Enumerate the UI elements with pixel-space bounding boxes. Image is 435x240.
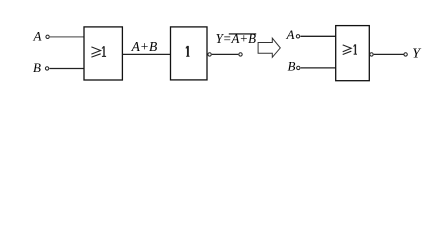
input terminal A <box>46 35 49 38</box>
svg-text:A+B: A+B <box>131 40 158 55</box>
label >=1 of U1 <box>91 47 100 57</box>
implication arrow <box>258 38 280 57</box>
not-gate U2 <box>171 27 208 80</box>
label >=1 of U3 <box>343 45 352 55</box>
input terminal A (right circuit) <box>296 35 299 38</box>
svg-text:B: B <box>288 58 296 73</box>
input terminal B (right circuit) <box>297 66 300 69</box>
inversion bubble U3 <box>370 53 373 56</box>
overline of A+B <box>229 33 256 35</box>
svg-text:B: B <box>33 60 41 75</box>
svg-text:A: A <box>286 27 295 42</box>
output terminal Y (right circuit) <box>404 53 407 56</box>
wire U2 output <box>212 53 239 55</box>
wire A to U1 <box>50 36 84 38</box>
wire B to U1 <box>50 68 85 70</box>
output terminal Y (left circuit) <box>239 53 242 56</box>
wire B to U3 <box>301 67 336 69</box>
or-gate U1 <box>84 27 122 80</box>
wire U1 output to U2 <box>122 53 170 55</box>
wire A to U3 <box>300 35 335 37</box>
input terminal B <box>45 67 48 70</box>
wire U3 output <box>374 53 404 55</box>
svg-text:A: A <box>33 28 42 43</box>
inversion bubble U2 <box>208 53 211 56</box>
label 1 of U2 <box>186 46 190 56</box>
nor-gate U3 <box>336 26 370 81</box>
